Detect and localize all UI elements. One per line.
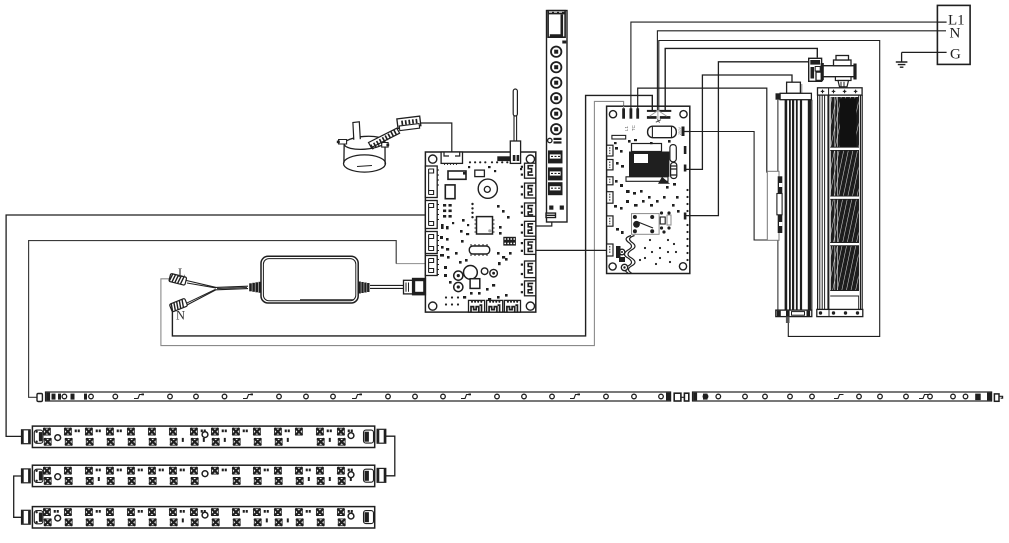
svg-text:TC: TC <box>631 125 636 131</box>
svg-text:N: N <box>176 309 185 323</box>
svg-text:G: G <box>950 47 961 63</box>
svg-text:250V: 250V <box>678 126 682 135</box>
svg-text:L1: L1 <box>624 126 629 131</box>
svg-text:L: L <box>178 266 186 280</box>
svg-text:N: N <box>950 26 961 42</box>
